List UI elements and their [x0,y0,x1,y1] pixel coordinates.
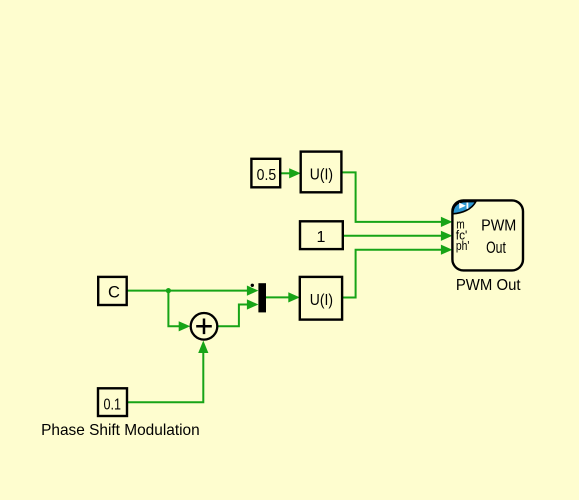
arrowhead into PWM m [441,217,453,227]
wire junction down to sum left input [168,291,181,327]
wire U(I) top output to PWM m input [341,172,443,222]
mux marker dot [251,284,254,287]
wire U(I) bottom output to PWM ph' input [342,250,443,298]
svg-text:Out: Out [486,239,506,257]
arrowhead into U(I) bottom [288,292,300,302]
svg-text:0.1: 0.1 [104,396,122,413]
svg-text:PWM: PWM [481,218,516,235]
constant block 1 [300,221,343,249]
badge icon bar [467,203,469,209]
subsystem badge (blue leaf) [453,202,476,214]
svg-text:C: C [108,283,120,301]
badge icon triangle [459,203,466,209]
wire 0.5 to U(I) top [280,172,291,174]
constant block 0.5 [251,159,280,188]
constant block C [98,277,127,305]
function block U(I) bottom [300,277,342,320]
arrowhead into sum bottom [198,341,208,354]
subsystem block PWM Out [452,200,523,270]
arrowhead into U(I) top [289,168,301,178]
wire 1 to PWM fc' input [343,235,443,237]
svg-text:U(I): U(I) [310,292,333,309]
arrowhead into PWM ph' [441,245,453,255]
svg-text:ph': ph' [456,238,470,253]
arrowhead into mux input 2 [247,299,259,309]
wire C to mux input 1 [127,290,249,292]
svg-text:0.5: 0.5 [257,167,277,184]
junction node on C wire [166,288,171,293]
svg-text:1: 1 [317,229,326,246]
arrowhead into PWM fc' [441,231,453,241]
mux [258,283,266,312]
sum block [191,313,218,340]
constant block 0.1 [98,388,127,416]
wire sum output to mux input 2 [218,305,249,327]
wire mux output to U(I) bottom [266,296,291,298]
function block U(I) top [301,152,342,193]
svg-text:Phase Shift Modulation: Phase Shift Modulation [41,422,200,439]
svg-text:PWM Out: PWM Out [456,277,521,294]
arrowhead into sum left [179,321,191,331]
svg-text:U(I): U(I) [310,166,333,183]
arrowhead into mux input 1 [247,286,259,296]
wire 0.1 to sum bottom input [127,350,203,402]
